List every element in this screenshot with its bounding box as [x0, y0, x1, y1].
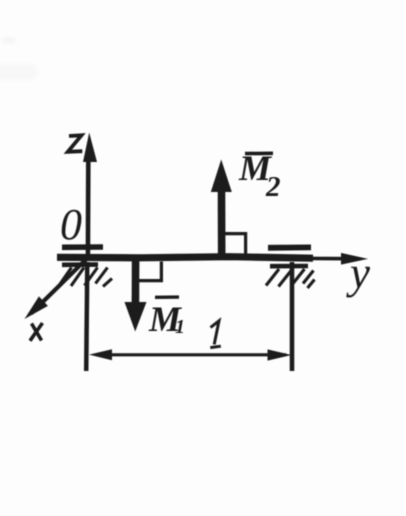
right support plate above beam — [268, 244, 311, 250]
x-axis — [31, 257, 89, 314]
moment M2 arrow (up) — [218, 192, 226, 256]
right-angle mark at M1 — [138, 262, 161, 281]
svg-text:0: 0 — [60, 200, 82, 249]
right support bar below beam — [270, 264, 308, 269]
wire: y-axis line continuation — [310, 257, 346, 261]
z-axis arrowhead — [83, 133, 97, 163]
length label l — [210, 321, 221, 348]
dimension arrowhead right — [268, 349, 292, 360]
wire: beam along y — [57, 257, 313, 259]
left support hatching — [59, 268, 112, 287]
svg-text:y: y — [346, 248, 370, 298]
dimension extension line left (below origin) — [86, 262, 87, 371]
svg-text:2: 2 — [265, 171, 281, 203]
dimension line — [96, 353, 286, 356]
scan smudge top-left — [0, 38, 38, 80]
y-axis arrowhead — [341, 253, 368, 265]
svg-text:1: 1 — [175, 316, 185, 338]
x-axis arrowhead — [25, 296, 48, 319]
left support plate above beam — [62, 244, 103, 250]
z-axis — [86, 160, 91, 258]
node x label — [30, 323, 43, 341]
right-angle mark at M2 — [224, 234, 246, 254]
right support hatching — [266, 269, 315, 288]
dimension arrowhead left — [89, 349, 112, 360]
dimension extension line right — [290, 262, 295, 371]
moment M1 arrow (down) — [132, 259, 140, 306]
node z label — [68, 135, 83, 152]
left support bar below beam — [62, 262, 98, 267]
